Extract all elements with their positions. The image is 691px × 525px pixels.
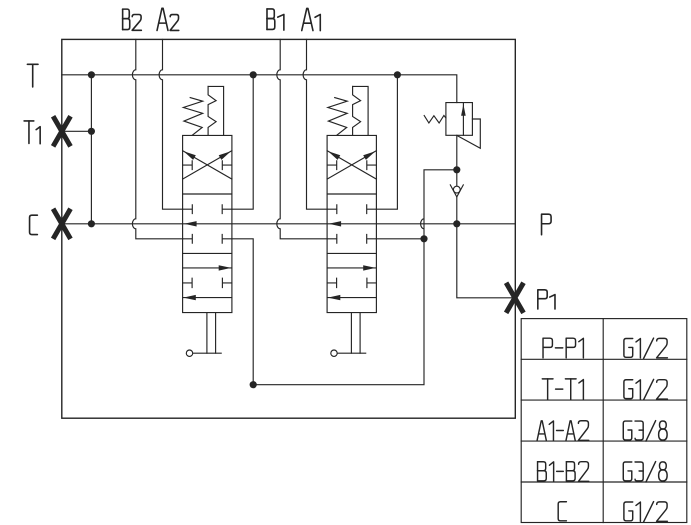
valve 1 crossed position flow path 2 [183, 151, 232, 179]
valve 2 parallel box blocked port left [327, 278, 337, 287]
label P [542, 214, 552, 234]
table row 3 size G3/8 [623, 421, 667, 441]
valve 2 neutral box blocked port lower-left [327, 234, 337, 243]
valve 1 neutral bypass arrowhead [184, 221, 197, 226]
relief valve pilot line [458, 119, 481, 148]
wire A2 drop [159, 39, 183, 209]
plug T1 [53, 116, 70, 146]
valve 1 actuator stem [193, 313, 222, 354]
valve 2 valve body outline [327, 135, 376, 312]
wire A1 drop [303, 39, 327, 209]
port size table grid [521, 319, 687, 523]
table row 3 ports A1-A2 [537, 421, 589, 441]
wire B2 drop [132, 39, 182, 238]
table row 1 ports P-P1 [543, 338, 583, 358]
valve 1 crossed position flow path 1 [183, 151, 232, 179]
valve 2 parallel flow path right [327, 265, 376, 270]
wire T-T1-C vertical [90, 75, 92, 224]
table row 2 ports T-T1 [542, 379, 583, 399]
junction return corner [250, 381, 257, 388]
wire return route [232, 170, 457, 385]
label B2 [123, 9, 142, 30]
junction T1 [88, 128, 95, 135]
wire T1 stub [62, 130, 92, 132]
wire T drop to valve 1 [232, 75, 253, 209]
block outer border [62, 39, 516, 418]
label T1 [24, 121, 40, 144]
valve 1 parallel flow path right [183, 265, 232, 270]
check valve ball [453, 186, 460, 193]
valve 1 valve body outline [183, 135, 232, 312]
label A1 [302, 8, 321, 30]
label T [27, 64, 38, 87]
valve 1 parallel box blocked port right [222, 278, 232, 287]
table row 5 size G1/2 [624, 502, 668, 522]
junction valve2 return [420, 235, 427, 242]
wire T drop to valve 2 [376, 75, 397, 209]
valve 2 neutral bypass arrowhead [329, 221, 342, 226]
table row 4 ports B1-B2 [538, 462, 589, 482]
valve 2 crossed position flow path 2 [327, 151, 376, 179]
valve 2 spool positioner [353, 86, 369, 135]
valve 2 neutral box blocked port upper-right [367, 205, 377, 214]
valve 1 crossed box blocked port right [222, 161, 232, 170]
valve 1 neutral box blocked port upper-left [183, 205, 193, 214]
valve 2 crossed box blocked port left [327, 161, 337, 170]
valve 1 parallel flow path left [183, 295, 232, 300]
wire C-P gallery [62, 223, 516, 225]
valve 2 crossed path 2 arrowhead [328, 151, 340, 160]
valve 1 crossed path 2 arrowhead [184, 151, 196, 160]
junction T x valve1 drop [250, 71, 257, 78]
valve 1 return spring [183, 98, 202, 136]
valve 2 parallel box blocked port right [367, 278, 377, 287]
wire relief valve outlet [456, 135, 458, 186]
table row 1 size G1/2 [624, 338, 668, 358]
valve 1 neutral box blocked port upper-right [222, 205, 232, 214]
valve 2 parallel flow path left [327, 295, 376, 300]
label P1 [538, 290, 555, 309]
valve 2 crossed position flow path 1 [327, 151, 376, 179]
relief valve body [446, 103, 473, 136]
table row 2 size G1/2 [624, 379, 668, 399]
relief valve flow line [462, 103, 464, 136]
plug P1 [506, 283, 523, 313]
valve 1 lever pivot circle [186, 350, 192, 356]
valve 2 actuator stem [337, 313, 366, 354]
plug C [53, 209, 70, 239]
valve 2 neutral box blocked port upper-left [327, 205, 337, 214]
wire T gallery (T port to relief valve) [62, 75, 457, 103]
junction C [88, 220, 95, 227]
valve 1 parallel box blocked port left [183, 278, 193, 287]
table row 5 port C [558, 502, 566, 521]
valve 2 return spring [328, 98, 347, 136]
relief valve flow arrowhead [461, 104, 466, 116]
valve 1 spool positioner [208, 86, 224, 135]
junction T x T1 vertical [88, 71, 95, 78]
check valve seat [450, 185, 463, 197]
valve 1 crossed path 1 arrowhead [219, 151, 231, 160]
wire valve2 lower-right port link [376, 238, 424, 240]
valve 2 lever pivot circle [331, 350, 337, 356]
valve 2 crossed path 1 arrowhead [363, 151, 375, 160]
wire B1 drop [277, 39, 327, 238]
valve 1 neutral box blocked port lower-left [183, 234, 193, 243]
valve 1 neutral box blocked port lower-right [222, 234, 232, 243]
junction P [453, 220, 460, 227]
relief valve spring [424, 116, 446, 124]
label B1 [267, 9, 284, 30]
label C [30, 215, 38, 234]
table row 4 size G3/8 [623, 462, 667, 482]
valve 1 crossed box blocked port left [183, 161, 193, 170]
valve 2 neutral box blocked port lower-right [367, 234, 377, 243]
valve 2 crossed box blocked port right [367, 161, 377, 170]
junction relief-check [453, 166, 460, 173]
label A2 [157, 8, 179, 30]
wire check valve to P gallery [456, 197, 458, 224]
junction T x valve2 drop [394, 71, 401, 78]
wire P to P1 branch [457, 224, 516, 298]
